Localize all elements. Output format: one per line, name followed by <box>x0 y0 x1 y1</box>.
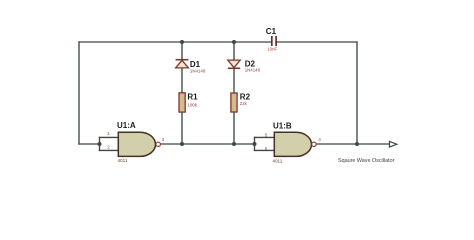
svg-text:C1: C1 <box>266 27 277 36</box>
svg-text:22k: 22k <box>240 101 248 106</box>
svg-text:R1: R1 <box>187 93 198 102</box>
svg-text:U1:B: U1:B <box>273 122 292 131</box>
svg-text:Sqaure Wave Oscillator: Sqaure Wave Oscillator <box>338 158 395 164</box>
svg-text:1N4148: 1N4148 <box>190 69 206 74</box>
svg-text:1N4148: 1N4148 <box>245 68 261 73</box>
svg-text:U1:A: U1:A <box>117 121 136 130</box>
svg-text:10nF: 10nF <box>267 46 277 51</box>
svg-text:100k: 100k <box>187 102 197 107</box>
svg-text:4011: 4011 <box>118 158 128 163</box>
svg-text:R2: R2 <box>240 93 251 102</box>
svg-text:4011: 4011 <box>272 159 282 164</box>
